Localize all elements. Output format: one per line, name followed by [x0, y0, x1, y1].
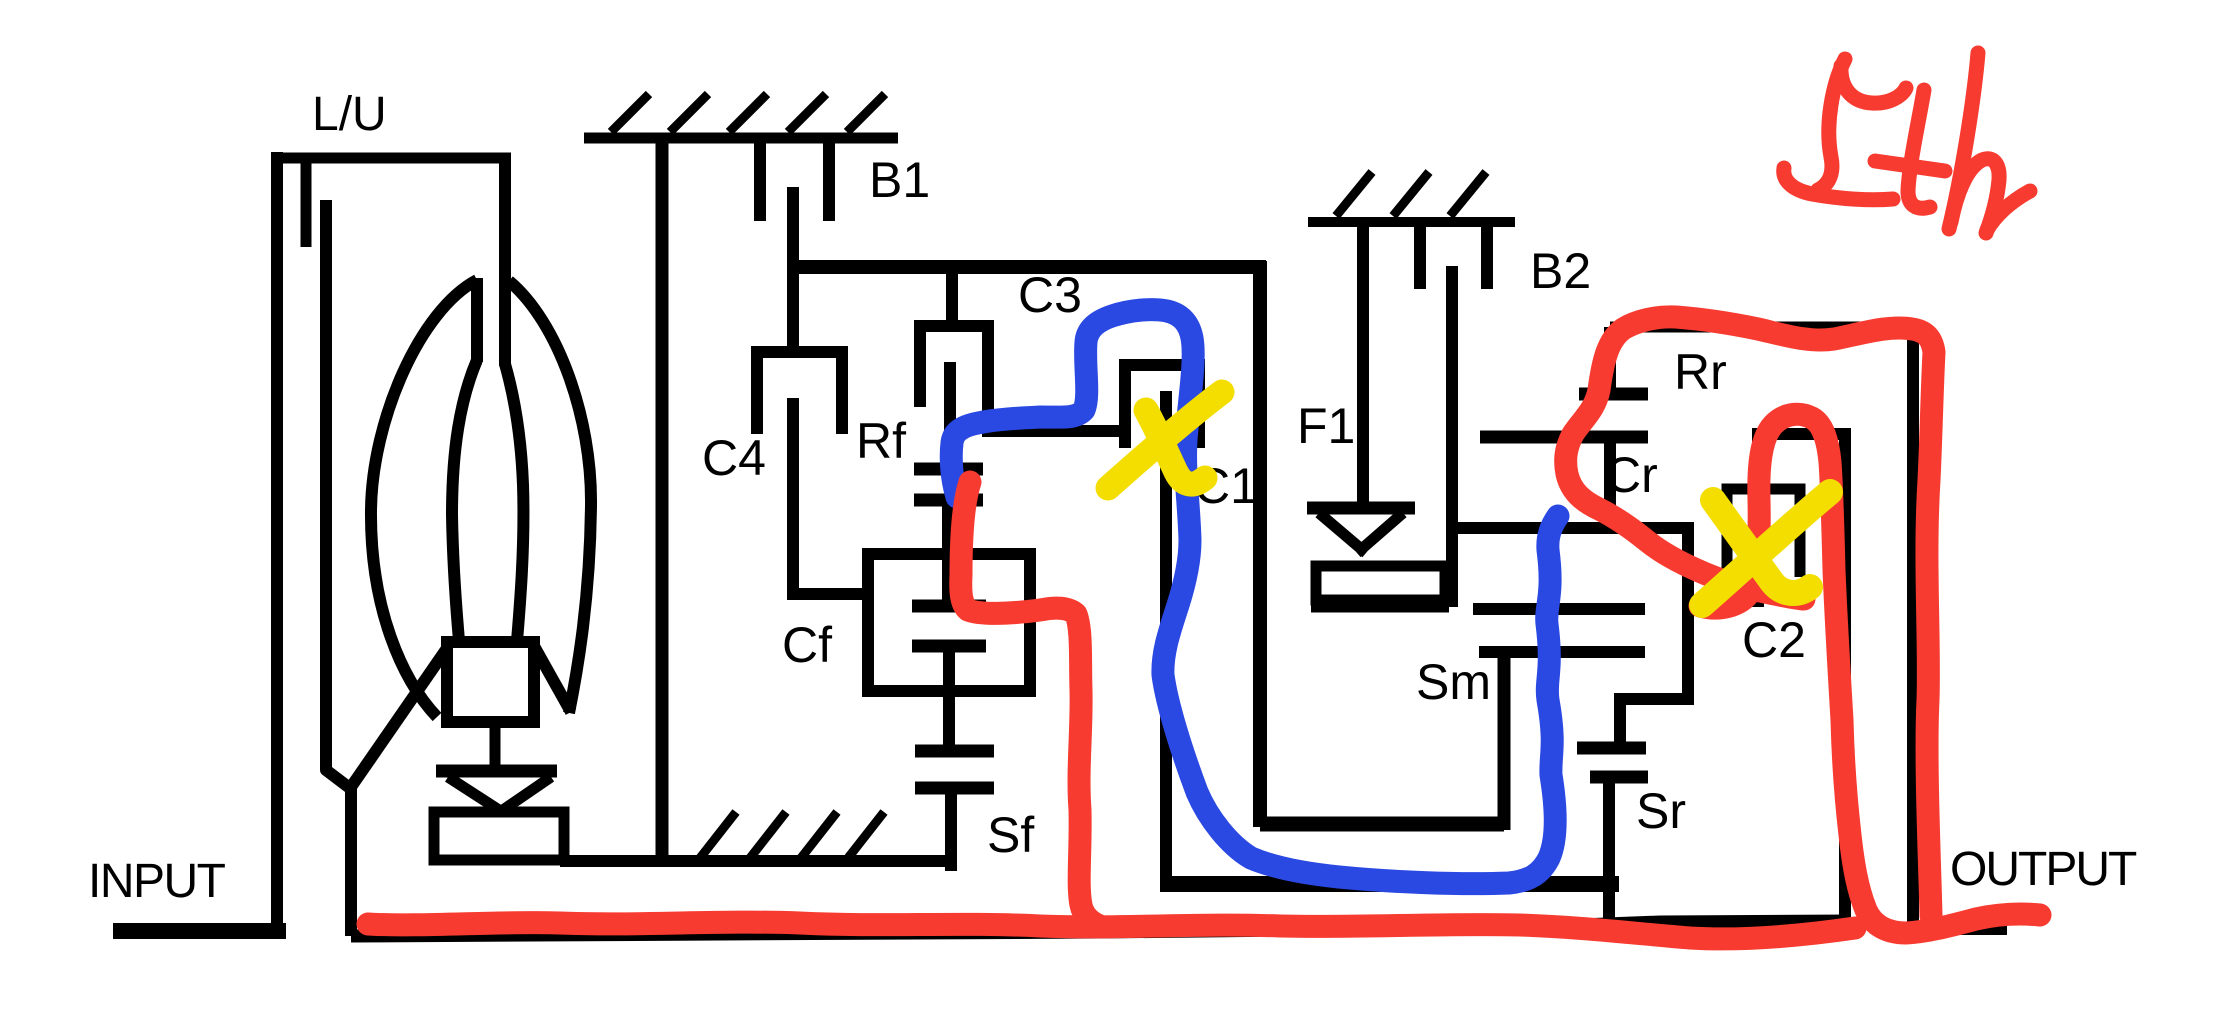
carrier Cr bottom bar: [1614, 693, 1694, 705]
svg-text:Cf: Cf: [782, 617, 832, 673]
sun Sm pack plate upper: [1473, 603, 1645, 615]
lock-up clutch L/U outer plate: [301, 158, 312, 247]
svg-text:B1: B1: [869, 152, 930, 208]
brake B2 inner plate shaft: [1446, 266, 1458, 607]
sun Sr lower stem: [1603, 777, 1615, 922]
svg-text:C2: C2: [1742, 612, 1806, 668]
ring Rr plate lower: [1480, 431, 1648, 444]
clutch C1 drum: [1125, 365, 1199, 448]
pump pedestal box: [434, 812, 564, 860]
svg-text:C3: C3: [1018, 267, 1082, 323]
annotation red power path input run: [368, 922, 1855, 939]
sun Sf plate upper: [915, 745, 994, 758]
wire output top line: [1610, 322, 1913, 333]
sun Sm pack plate lower: [1479, 646, 1645, 658]
wire input shaft long line: [351, 921, 1851, 936]
torque converter outer shell left arc: [371, 280, 477, 717]
wire lower rail: [1160, 876, 1619, 892]
wire Rr plate to Cr bar: [1604, 437, 1616, 528]
svg-text:Sm: Sm: [1416, 654, 1491, 710]
wire OUTPUT stub: [1913, 923, 2007, 935]
clutch C3 pack plate upper: [914, 463, 983, 476]
clutch C3 drum: [920, 326, 988, 437]
clutch C3 inner plate: [944, 362, 956, 463]
wire converter housing top: [271, 153, 511, 164]
brake B2 outer plate 2: [1481, 222, 1493, 289]
wire turbine hub to output link diagonal: [351, 641, 452, 787]
carrier Cf box: [868, 554, 1030, 691]
torque converter turbine inner right arc: [505, 364, 523, 641]
brake B1 inner plate and drum shaft: [787, 187, 799, 352]
ground wall B2 hatches: [1336, 172, 1486, 216]
ground wall B1 hatches: [611, 94, 885, 132]
sun Sr upper stem: [1614, 699, 1626, 748]
svg-text:Sr: Sr: [1636, 783, 1686, 839]
ring Rr plate upper: [1579, 388, 1648, 401]
wire sun Sf to case: [945, 788, 957, 871]
wire C3 pack to Cf plate: [942, 500, 954, 606]
one-way clutch F1 shaft: [1357, 222, 1369, 508]
wire converter housing left: [271, 152, 283, 938]
annotation yellow X on C1: [1108, 392, 1222, 488]
sun Sm shaft right edge: [1498, 652, 1511, 830]
clutch C1 inner plate shaft: [1160, 391, 1172, 878]
one-way clutch F1 box: [1311, 566, 1449, 607]
clutch C2 inner drum: [1727, 489, 1800, 607]
lock-up clutch L/U inner plate: [326, 200, 351, 936]
svg-text:Rf: Rf: [856, 413, 906, 469]
carrier Cr right corner vertical: [1682, 528, 1694, 705]
clutch Cf pack plate lower: [912, 640, 986, 653]
clutch C3 drum stub: [946, 267, 958, 326]
svg-text:OUTPUT: OUTPUT: [1950, 843, 2137, 896]
wire C3 drum to C1 drum: [982, 425, 1125, 437]
annotation red handwriting 5th: [1784, 53, 2030, 233]
wire hub to shell right diagonal: [534, 646, 571, 712]
one-way clutch stator top bar: [436, 765, 557, 778]
annotation red power path front branch: [961, 482, 1100, 926]
clutch C4 drum: [757, 352, 842, 434]
svg-text:B2: B2: [1530, 243, 1591, 299]
ground wall B1 top: [584, 133, 898, 144]
ground wall B2 top: [1308, 217, 1515, 227]
torque converter pump hub vertical: [471, 278, 483, 362]
sun Sr plate upper: [1577, 742, 1646, 755]
svg-text:INPUT: INPUT: [88, 855, 226, 908]
brake B1 outer plate 1: [754, 140, 766, 221]
wire top drum bus: [787, 260, 1266, 274]
clutch C4 inner plate arm: [793, 398, 868, 594]
sun Sf plate lower: [915, 782, 994, 795]
wire output shaft vertical: [1907, 327, 1919, 929]
torque converter outer shell right arc: [509, 281, 591, 713]
wire case left vertical: [656, 138, 669, 861]
svg-text:Cr: Cr: [1605, 447, 1658, 503]
torque converter hub box: [447, 642, 534, 722]
ring Rr stub: [1604, 327, 1616, 394]
annotation red power path output loop: [1566, 317, 1934, 916]
torque converter turbine inner left arc: [452, 360, 477, 641]
carrier Cr bar: [1452, 522, 1694, 534]
svg-text:F1: F1: [1297, 398, 1355, 454]
ground wall bottom: [560, 855, 955, 867]
one-way clutch F1 triangle: [1319, 513, 1403, 553]
wire middle bottom bar: [1260, 817, 1504, 832]
wire Cf pack to sun Sf: [943, 646, 955, 751]
clutch Cf pack plate upper: [912, 600, 986, 613]
svg-text:L/U: L/U: [312, 88, 387, 141]
wire INPUT shaft stub: [113, 923, 286, 939]
clutch C3 pack plate lower: [914, 494, 983, 507]
wire front section right wall: [1253, 261, 1267, 827]
svg-text:C4: C4: [702, 430, 766, 486]
annotation blue power path: [951, 310, 1558, 884]
annotation red power path C2 loop: [1700, 414, 2040, 933]
svg-text:Rr: Rr: [1674, 344, 1727, 400]
annotation yellow X on C2: [1702, 492, 1830, 605]
wire stator shaft stub: [490, 722, 501, 770]
brake B2 outer plate 1: [1414, 222, 1426, 289]
one-way clutch F1 top bar: [1307, 502, 1415, 515]
svg-text:Sf: Sf: [987, 807, 1034, 863]
wire converter housing right: [499, 158, 511, 366]
ground wall bottom hatches: [700, 812, 884, 858]
one-way clutch stator triangle: [448, 777, 551, 812]
brake B1 outer plate 2: [823, 140, 835, 221]
sun Sr plate lower: [1590, 771, 1648, 784]
clutch C2 outer drum: [1758, 434, 1845, 930]
